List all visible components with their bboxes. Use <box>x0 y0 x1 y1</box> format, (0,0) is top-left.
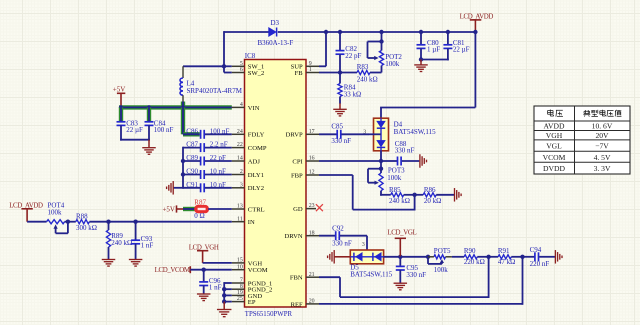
svg-text:R87: R87 <box>194 198 206 206</box>
wire SW_2 to pin <box>224 72 232 74</box>
svg-text:R85: R85 <box>389 186 401 194</box>
pin VGH name <box>248 260 263 267</box>
junction bus at C89 <box>181 159 185 163</box>
pin PGND_2 name <box>248 287 273 294</box>
resistor R87 (selected, 0 ohm) <box>194 198 208 212</box>
svg-text:BAT54SW,115: BAT54SW,115 <box>350 271 393 279</box>
pin VCOM (10) stub <box>232 269 245 271</box>
pin CTRL name <box>248 206 265 213</box>
svg-text:DVDD: DVDD <box>543 164 565 173</box>
svg-text:POT5: POT5 <box>434 247 451 255</box>
wire C90 left plate <box>183 174 200 176</box>
wire L4 bottom stub (green) <box>181 102 185 108</box>
junction C96 tap <box>202 268 206 272</box>
svg-text:15: 15 <box>237 258 243 264</box>
svg-text:2: 2 <box>240 169 243 175</box>
svg-text:11: 11 <box>237 216 243 222</box>
pin VIN (4) stub <box>232 106 245 108</box>
pin CPI (16) stub <box>306 160 319 162</box>
wire FB pin to node <box>319 72 357 74</box>
potentiometer POT2 value <box>385 60 400 68</box>
svg-text:LCD_VCOM: LCD_VCOM <box>155 267 190 274</box>
diode D3 value B360A-13-F <box>258 39 294 47</box>
pin DRVN name <box>285 233 303 240</box>
wire FBN up to divider junction <box>488 257 490 298</box>
pin PGND_1 name <box>248 280 273 287</box>
pin COMP number <box>237 142 243 148</box>
wire REF up to C94 junction <box>522 257 524 305</box>
capacitor C90 <box>186 168 204 179</box>
svg-text:22 pF: 22 pF <box>345 52 361 60</box>
table header cell 电压 <box>548 110 563 117</box>
pin IN (11) stub <box>232 221 245 223</box>
svg-text:300 kΩ: 300 kΩ <box>76 224 97 232</box>
svg-text:100k: 100k <box>434 266 449 274</box>
pin VGH (15) stub <box>232 262 245 264</box>
capacitor C96 value <box>209 284 222 292</box>
diode D5 value <box>350 271 393 279</box>
IC8 part number <box>245 311 293 318</box>
pin FBP (12) stub <box>306 174 319 176</box>
wire top rail left segment (SW node to D3) <box>224 31 269 33</box>
wire PGND_1 to bus <box>224 282 232 284</box>
resistor R86 value <box>424 197 441 205</box>
pin GND (19) stub <box>232 294 245 296</box>
capacitor C94 value <box>530 260 550 268</box>
wire POT2 bottom vertical <box>381 66 383 73</box>
wire R83 to POT2 bottom <box>370 72 382 74</box>
capacitor C88 value <box>395 147 415 155</box>
junction +5V at C83 <box>119 105 123 109</box>
junction C80 on rail <box>419 30 423 34</box>
resistor R84 value <box>344 91 361 99</box>
capacitor C83 value <box>126 126 143 134</box>
svg-text:C86: C86 <box>186 127 198 135</box>
wire C84 bottom <box>148 125 150 140</box>
resistor R85 value <box>389 197 410 205</box>
junction POT2 top on rail <box>379 30 383 34</box>
ground sideways right of C88 <box>420 154 427 168</box>
svg-text:BAT54SW,115: BAT54SW,115 <box>394 128 437 136</box>
table row VGL <box>546 142 609 151</box>
svg-text:24: 24 <box>237 129 243 135</box>
svg-text:CPI: CPI <box>292 158 302 165</box>
pin EP (25) stub <box>232 301 245 303</box>
wire C89 left plate <box>183 160 200 162</box>
pin FBN number <box>309 272 315 278</box>
capacitor C94 <box>530 246 542 261</box>
potentiometer POT2 <box>368 32 403 66</box>
potentiometer POT4 value <box>48 208 63 216</box>
wire VGL node to POT5 <box>400 256 428 258</box>
svg-text:100k: 100k <box>48 208 63 216</box>
wire LCD_AVDD to POT4 <box>27 221 46 223</box>
svg-text:14: 14 <box>237 156 243 162</box>
svg-text:1 nF: 1 nF <box>141 242 154 250</box>
svg-text:240 kΩ: 240 kΩ <box>111 239 132 247</box>
svg-text:3: 3 <box>240 182 243 188</box>
wire PGND_2 to bus <box>224 288 232 290</box>
svg-text:B360A-13-F: B360A-13-F <box>258 39 294 47</box>
ground below C83/C84 <box>142 140 156 155</box>
wire +5V to R87 (green) <box>183 207 196 211</box>
wire C83-C84 bottom connector <box>120 139 150 141</box>
svg-text:LCD_AVDD: LCD_AVDD <box>460 14 494 21</box>
wire VIN net horizontal (green highlighted) <box>119 105 232 109</box>
pin CTRL number <box>237 204 243 210</box>
svg-text:IN: IN <box>248 219 255 226</box>
capacitor C92 <box>332 224 344 240</box>
ground below C93 <box>129 260 143 267</box>
wire LCD_AVDD vertical drop <box>474 32 476 108</box>
svg-text:47 kΩ: 47 kΩ <box>498 258 515 266</box>
svg-text:20: 20 <box>309 299 315 305</box>
wire R87 to CTRL pin <box>208 208 232 210</box>
pin FBN name <box>290 275 303 282</box>
junction R90/R91 (FBN tap) <box>486 255 490 259</box>
junction SW_1 node <box>222 64 226 68</box>
wire C89 right plate to pin <box>205 160 232 162</box>
resistor R90 value <box>464 258 485 266</box>
wire GND to bus <box>224 294 232 296</box>
pin 3 of D4 <box>363 130 366 136</box>
svg-text:13: 13 <box>237 204 243 210</box>
pin FBP number <box>309 170 315 176</box>
pin ADJ (14) stub <box>232 160 245 162</box>
svg-text:3. 3V: 3. 3V <box>594 164 611 173</box>
resistor R83 <box>357 63 370 74</box>
no-connect X on pin GD <box>316 204 323 211</box>
pin REF (20) stub <box>306 303 319 305</box>
wire bypass cap bus vertical <box>182 147 184 189</box>
wire bus to side ground <box>174 187 184 189</box>
capacitor C90 value <box>210 168 226 176</box>
resistor R89 value <box>111 239 132 247</box>
pin COMP name <box>248 145 267 152</box>
svg-text:17: 17 <box>309 129 315 135</box>
junction FB node <box>338 70 342 74</box>
capacitor C81 value <box>453 45 470 53</box>
pin DRVP number <box>309 129 315 135</box>
pin DRVP name <box>286 132 303 139</box>
wire C87 right plate to pin <box>205 147 232 149</box>
pin DLY2 (3) stub <box>232 187 245 189</box>
wire C83 top stub (green) <box>119 107 123 121</box>
pin GD number <box>309 203 315 209</box>
power LCD_VGL <box>387 229 416 256</box>
svg-text:330 nF: 330 nF <box>332 239 352 247</box>
pin GD name <box>293 206 303 213</box>
junction C82 on rail <box>338 30 342 34</box>
ground below C95 <box>394 283 408 290</box>
inductor L4 value SRP4020TA-4R7M <box>187 87 243 95</box>
capacitor C95 <box>396 257 419 283</box>
pin FBN (21) stub <box>306 276 319 278</box>
resistor R86 <box>423 186 436 197</box>
pin PGND_2 (8) stub <box>232 288 245 290</box>
capacitor C84 <box>145 119 166 127</box>
svg-text:SRP4020TA-4R7M: SRP4020TA-4R7M <box>187 87 243 95</box>
pin 3 of D5 <box>362 242 365 248</box>
wire junction to R86 <box>415 194 424 196</box>
svg-text:R91: R91 <box>498 247 510 255</box>
svg-text:DLY2: DLY2 <box>248 185 264 192</box>
wire C84 top stub (green) <box>147 107 151 121</box>
ground sideways right of C94 <box>555 250 562 263</box>
svg-text:220 nF: 220 nF <box>530 260 550 268</box>
svg-text:330 nF: 330 nF <box>331 137 351 145</box>
svg-text:100k: 100k <box>387 174 402 182</box>
svg-text:FB: FB <box>295 70 304 77</box>
junction at C93 <box>133 220 137 224</box>
capacitor C87 value <box>210 141 228 149</box>
svg-text:+5V: +5V <box>162 205 175 213</box>
capacitor C96 <box>199 270 221 294</box>
svg-text:20 kΩ: 20 kΩ <box>424 197 441 205</box>
svg-text:R88: R88 <box>76 213 88 221</box>
svg-text:FDLY: FDLY <box>248 132 265 139</box>
wire C91 left plate <box>183 187 200 189</box>
svg-text:4: 4 <box>240 102 243 108</box>
wire VIN branch down to C86 (green) <box>181 107 185 134</box>
capacitor C92 value <box>332 239 352 247</box>
wire C83 bottom <box>120 125 122 140</box>
svg-text:6: 6 <box>240 67 243 73</box>
ground below R89 <box>102 260 116 267</box>
junction SUP on rail <box>324 30 328 34</box>
capacitor C89 value <box>210 154 226 162</box>
capacitor C89 <box>186 154 204 165</box>
svg-text:7: 7 <box>240 278 243 284</box>
svg-text:3: 3 <box>362 242 365 248</box>
wire C94 to ground <box>539 256 555 258</box>
wire SUP pin to corner <box>319 65 326 67</box>
pin IN number <box>237 216 243 222</box>
wire FBP bottom horizontal <box>353 209 415 211</box>
ground below C80 <box>414 60 428 72</box>
potentiometer POT4 <box>47 201 68 233</box>
diode D3 <box>269 19 280 36</box>
wire FBN vertical <box>339 277 341 297</box>
capacitor C93 <box>131 222 153 260</box>
junction POT2 wiper loop <box>379 39 383 43</box>
wire POT3 bottom to R85 <box>380 194 391 196</box>
capacitor C86 value <box>210 127 230 135</box>
svg-text:VCOM: VCOM <box>248 267 268 274</box>
wire R85 to junction <box>404 194 415 196</box>
svg-text:R83: R83 <box>357 63 369 71</box>
wire C85 to D4 tap <box>342 133 369 135</box>
junction at L4 bottom <box>181 105 185 109</box>
table row DVDD <box>543 164 611 173</box>
inductor L4 <box>180 66 195 103</box>
wire R86 to ground <box>436 194 454 196</box>
pin PGND_1 (7) stub <box>232 282 245 284</box>
junction POT5 wiper tap <box>426 255 430 259</box>
pin SW_2 (6) stub <box>232 72 245 74</box>
wire REF horizontal <box>319 303 523 305</box>
svg-text:1 nF: 1 nF <box>209 284 222 292</box>
table row VGH <box>546 131 609 140</box>
svg-text:19: 19 <box>237 290 243 296</box>
svg-text:REF: REF <box>291 301 303 308</box>
svg-text:IC8: IC8 <box>245 52 256 60</box>
svg-text:240 kΩ: 240 kΩ <box>389 197 410 205</box>
capacitor C93 value <box>141 242 154 250</box>
pin GND name <box>248 293 263 300</box>
resistor R91 <box>498 247 511 259</box>
svg-text:GD: GD <box>293 206 303 213</box>
wire LCD_VGH to VGH pin <box>203 262 232 264</box>
pin DLY2 name <box>248 185 264 192</box>
svg-text:FBP: FBP <box>291 172 303 179</box>
svg-text:20V: 20V <box>595 131 609 140</box>
svg-text:SW_2: SW_2 <box>248 70 264 77</box>
pin VIN name <box>248 105 260 112</box>
svg-text:330 nF: 330 nF <box>406 271 426 279</box>
resistor R88 <box>76 213 90 224</box>
potentiometer POT5 value <box>434 266 449 274</box>
resistor R89 <box>106 222 123 260</box>
pin SW_2 number <box>240 67 243 73</box>
wire FBP vertical <box>352 175 354 210</box>
junction C80 ground node <box>419 57 423 61</box>
wire POT4 to R88 <box>65 221 76 223</box>
junction PGND_2 <box>222 287 226 291</box>
svg-text:33 kΩ: 33 kΩ <box>344 91 361 99</box>
wire VIN branch to C86 left plate (green) <box>183 132 200 136</box>
svg-text:D3: D3 <box>271 19 280 27</box>
junction R85/R86 <box>412 193 416 197</box>
pin SUP name <box>291 64 303 71</box>
table header cell 典型电压值 <box>583 110 621 117</box>
wire C91 right plate to pin <box>205 187 232 189</box>
pin VIN number <box>240 102 243 108</box>
svg-text:FBN: FBN <box>290 275 303 282</box>
wire SW node vertical <box>223 31 225 72</box>
svg-text:8: 8 <box>240 284 243 290</box>
capacitor C86 <box>186 127 204 138</box>
wire R90 to junction <box>477 256 488 258</box>
svg-text:EP: EP <box>248 299 256 306</box>
capacitor C83 <box>117 119 139 127</box>
pin DRVN (18) stub <box>306 235 319 237</box>
diode D4 value <box>394 128 437 136</box>
wire PGND bus vertical <box>223 282 225 302</box>
pin SW_1 name <box>248 64 264 71</box>
svg-text:23: 23 <box>309 203 315 209</box>
wire FBP pin horizontal <box>319 174 353 176</box>
table row VCOM <box>543 153 611 162</box>
wire FBN bottom horizontal <box>340 296 489 298</box>
wire C92 to corner <box>340 235 367 237</box>
pin EP number <box>237 296 243 302</box>
svg-text:VIN: VIN <box>248 105 260 112</box>
pin CPI name <box>292 158 302 165</box>
ground below C96 <box>197 294 211 301</box>
svg-text:16: 16 <box>309 156 315 162</box>
pin DRVP (17) stub <box>306 133 319 135</box>
wire SW_1 to pin <box>224 65 232 67</box>
pin ADJ name <box>248 158 261 165</box>
capacitor C80 value <box>427 45 440 53</box>
junction LCD_AVDD corner <box>473 30 477 34</box>
svg-text:25: 25 <box>237 296 243 302</box>
svg-text:DRVN: DRVN <box>285 233 303 240</box>
resistor R85 <box>389 186 404 197</box>
resistor R84 <box>338 73 356 104</box>
wire down into D5 center <box>366 236 368 257</box>
resistor R91 value <box>498 258 515 266</box>
capacitor C80 <box>417 32 440 60</box>
potentiometer POT3 value <box>387 174 402 182</box>
junction GND <box>222 293 226 297</box>
pin DLY1 name <box>248 172 264 179</box>
pin COMP (22) stub <box>232 147 245 149</box>
wire C87 left plate <box>183 147 200 149</box>
wire C81 bottom to C80 bottom <box>420 59 449 61</box>
pin SW_2 name <box>248 70 264 77</box>
svg-text:TPS65150PWPR: TPS65150PWPR <box>245 311 293 318</box>
ground sideways right of R86 <box>455 188 462 202</box>
pin REF number <box>309 299 315 305</box>
pin FB name <box>295 70 304 77</box>
svg-text:C92: C92 <box>332 224 344 232</box>
ground sideways left of D5 <box>328 250 335 263</box>
svg-text:COMP: COMP <box>248 145 267 152</box>
junction POT4 wiper <box>66 220 70 224</box>
wire C86 right plate to pin <box>205 133 232 135</box>
junction R91/C94 (REF tap) <box>520 255 524 259</box>
wire POT5 to R90 <box>452 256 464 258</box>
svg-text:LCD_VGL: LCD_VGL <box>387 229 416 236</box>
wire up to R85/R86 junction <box>414 195 416 211</box>
potentiometer POT5 <box>428 247 452 264</box>
pin SW_1 (5) stub <box>232 65 245 67</box>
power +5V (at R87) <box>162 205 183 213</box>
wire EP to bus <box>224 301 232 303</box>
junction C81 on rail <box>446 30 450 34</box>
resistor R83 value <box>357 76 378 84</box>
svg-text:−7V: −7V <box>595 142 609 151</box>
wire D5 right to VGL node <box>384 256 401 258</box>
wire C90 right plate to pin <box>205 174 232 176</box>
wire D4 bottom to CPI node <box>380 151 382 161</box>
capacitor C95 value <box>406 271 426 279</box>
svg-text:VGH: VGH <box>546 131 563 140</box>
resistor R88 value <box>76 224 97 232</box>
svg-text:9: 9 <box>309 61 312 67</box>
power +5V (left) <box>113 86 126 106</box>
wire R91 to junction <box>511 256 522 258</box>
svg-text:R90: R90 <box>464 247 476 255</box>
pin DLY1 (2) stub <box>232 174 245 176</box>
svg-text:10. 6V: 10. 6V <box>592 122 613 131</box>
svg-text:+5V: +5V <box>113 86 126 94</box>
svg-text:0 Ω: 0 Ω <box>194 212 204 220</box>
pin FDLY number <box>237 129 243 135</box>
ground below R84 <box>333 103 347 116</box>
pin REF name <box>291 301 303 308</box>
wire R88 to IN pin <box>89 221 231 223</box>
svg-text:4. 5V: 4. 5V <box>594 153 611 162</box>
svg-text:POT3: POT3 <box>388 166 405 174</box>
svg-text:240 kΩ: 240 kΩ <box>357 76 378 84</box>
pin FDLY (24) stub <box>232 133 245 135</box>
ground sideways left of C91 <box>167 181 174 195</box>
wire D5 left to ground <box>335 256 351 258</box>
resistor R87 value <box>194 212 204 220</box>
